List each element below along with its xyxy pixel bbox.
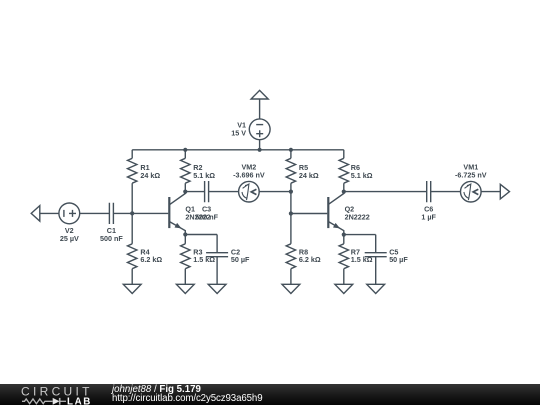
svg-text:6.2 kΩ: 6.2 kΩ — [299, 255, 321, 264]
svg-text:1.5 kΩ: 1.5 kΩ — [193, 255, 215, 264]
svg-text:5.1 kΩ: 5.1 kΩ — [351, 171, 373, 180]
svg-text:25 µV: 25 µV — [60, 234, 79, 243]
svg-text:1.5 kΩ: 1.5 kΩ — [351, 255, 373, 264]
svg-text:500 nF: 500 nF — [100, 234, 123, 243]
svg-text:2N2222: 2N2222 — [185, 212, 210, 221]
svg-text:2N2222: 2N2222 — [345, 212, 370, 221]
svg-text:-6.725 nV: -6.725 nV — [455, 171, 487, 180]
svg-text:24 kΩ: 24 kΩ — [299, 171, 319, 180]
svg-text:1 µF: 1 µF — [421, 212, 436, 221]
svg-text:50 µF: 50 µF — [231, 255, 250, 264]
svg-text:24 kΩ: 24 kΩ — [140, 171, 160, 180]
svg-text:15 V: 15 V — [231, 128, 246, 137]
svg-text:5.1 kΩ: 5.1 kΩ — [193, 171, 215, 180]
svg-text:6.2 kΩ: 6.2 kΩ — [140, 255, 162, 264]
svg-text:LAB: LAB — [67, 396, 92, 405]
svg-text:-3.696 nV: -3.696 nV — [233, 171, 265, 180]
svg-text:50 µF: 50 µF — [389, 255, 408, 264]
